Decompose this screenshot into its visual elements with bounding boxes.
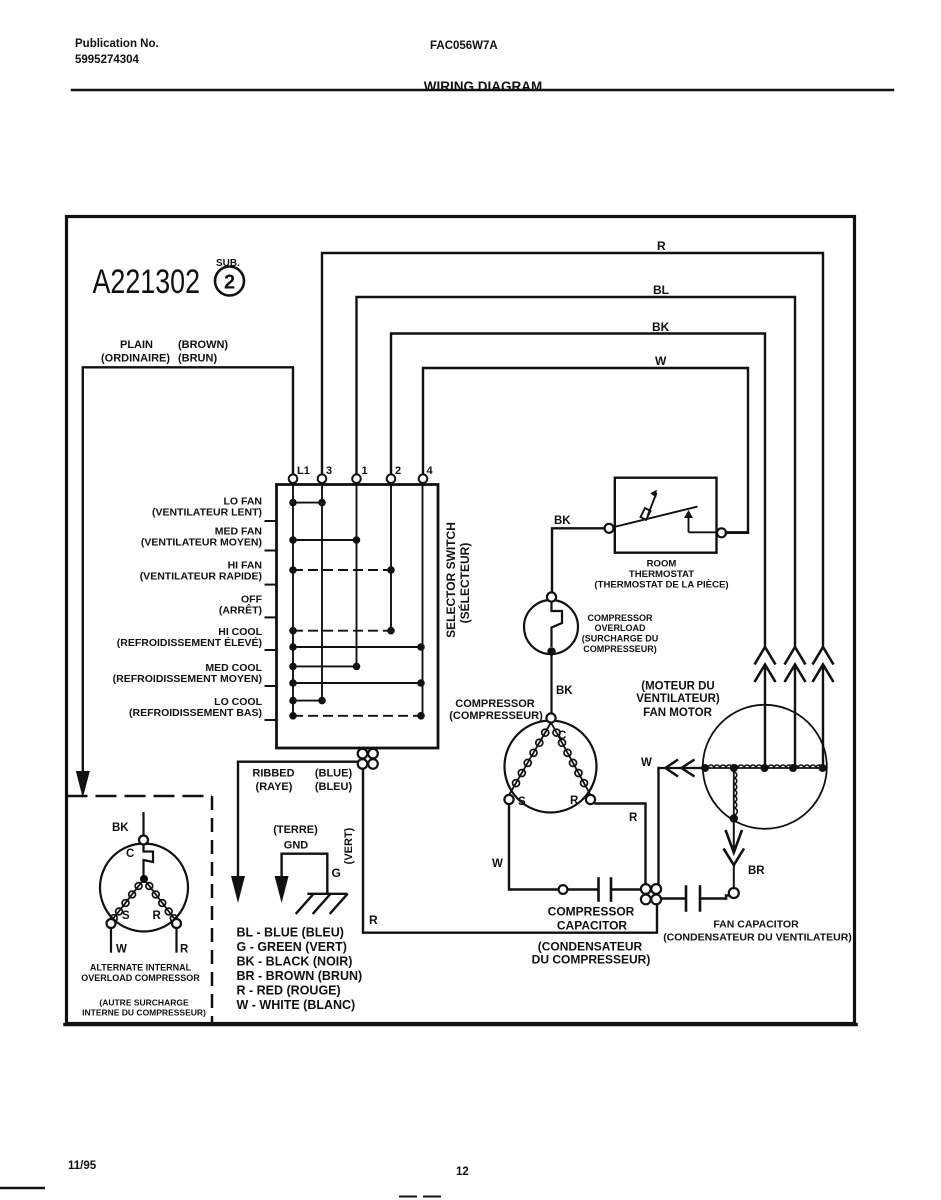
svg-text:R: R — [180, 944, 189, 956]
svg-text:CAPACITOR: CAPACITOR — [557, 919, 628, 933]
svg-text:(ORDINAIRE): (ORDINAIRE) — [101, 353, 170, 365]
svg-text:L1: L1 — [297, 465, 310, 477]
svg-text:DU COMPRESSEUR): DU COMPRESSEUR) — [532, 953, 651, 967]
svg-text:FAC056W7A: FAC056W7A — [430, 40, 498, 52]
svg-text:S: S — [518, 796, 526, 808]
svg-text:BK - BLACK (NOIR): BK - BLACK (NOIR) — [237, 955, 353, 969]
svg-text:R: R — [657, 239, 666, 253]
svg-text:(AUTRE SURCHARGE: (AUTRE SURCHARGE — [99, 998, 189, 1008]
svg-text:R: R — [629, 812, 638, 824]
svg-text:R: R — [153, 910, 162, 922]
svg-text:(VERT): (VERT) — [343, 827, 355, 864]
svg-text:5995274304: 5995274304 — [75, 54, 140, 66]
svg-text:ROOM: ROOM — [647, 559, 677, 570]
svg-text:11/95: 11/95 — [68, 1160, 97, 1172]
svg-text:G: G — [332, 866, 341, 880]
svg-text:BR - BROWN (BRUN): BR - BROWN (BRUN) — [237, 969, 363, 983]
svg-text:ALTERNATE INTERNAL: ALTERNATE INTERNAL — [90, 963, 192, 973]
svg-text:(SÉLECTEUR): (SÉLECTEUR) — [457, 543, 472, 624]
svg-text:(BROWN): (BROWN) — [178, 339, 228, 351]
svg-text:RIBBED: RIBBED — [252, 768, 294, 780]
svg-text:R: R — [369, 913, 378, 927]
svg-text:COMPRESSOR: COMPRESSOR — [587, 613, 653, 623]
svg-text:(ARRÊT): (ARRÊT) — [219, 604, 262, 617]
svg-text:Publication No.: Publication No. — [75, 38, 159, 50]
svg-text:OVERLOAD COMPRESSOR: OVERLOAD COMPRESSOR — [81, 973, 200, 983]
svg-text:FAN MOTOR: FAN MOTOR — [643, 707, 712, 719]
svg-text:BL: BL — [653, 283, 669, 297]
svg-text:COMPRESSEUR): COMPRESSEUR) — [583, 644, 657, 654]
svg-text:SELECTOR SWITCH: SELECTOR SWITCH — [444, 522, 458, 638]
svg-text:4: 4 — [427, 465, 434, 477]
svg-text:(REFROIDISSEMENT BAS): (REFROIDISSEMENT BAS) — [129, 707, 262, 719]
svg-text:COMPRESSOR: COMPRESSOR — [548, 905, 635, 919]
svg-text:2: 2 — [224, 272, 235, 294]
svg-text:(VENTILATEUR MOYEN): (VENTILATEUR MOYEN) — [141, 537, 262, 549]
svg-text:BL - BLUE (BLEU): BL - BLUE (BLEU) — [237, 926, 344, 940]
svg-text:(MOTEUR DU: (MOTEUR DU — [641, 681, 714, 693]
svg-text:VENTILATEUR): VENTILATEUR) — [636, 693, 720, 705]
svg-text:BR: BR — [748, 865, 765, 877]
svg-text:BK: BK — [652, 320, 670, 334]
svg-text:S: S — [122, 910, 130, 922]
svg-text:(SURCHARGE DU: (SURCHARGE DU — [582, 634, 659, 644]
svg-text:FAN CAPACITOR: FAN CAPACITOR — [713, 919, 799, 931]
svg-text:(COMPRESSEUR): (COMPRESSEUR) — [449, 710, 543, 722]
svg-text:GND: GND — [284, 840, 309, 852]
svg-text:(VENTILATEUR RAPIDE): (VENTILATEUR RAPIDE) — [140, 571, 262, 583]
svg-text:1: 1 — [362, 465, 368, 477]
svg-text:(BRUN): (BRUN) — [178, 353, 217, 365]
svg-text:12: 12 — [456, 1166, 469, 1178]
svg-text:(REFROIDISSEMENT MOYEN): (REFROIDISSEMENT MOYEN) — [113, 673, 262, 685]
svg-text:A221302: A221302 — [93, 263, 201, 301]
svg-text:(REFROIDISSEMENT ÉLEVÉ): (REFROIDISSEMENT ÉLEVÉ) — [117, 636, 262, 649]
svg-text:W: W — [116, 944, 127, 956]
svg-text:INTERNE DU COMPRESSEUR): INTERNE DU COMPRESSEUR) — [82, 1008, 206, 1018]
svg-text:COMPRESSOR: COMPRESSOR — [455, 698, 535, 710]
svg-text:(RAYE): (RAYE) — [256, 781, 293, 793]
svg-text:PLAIN: PLAIN — [120, 339, 153, 351]
svg-text:C: C — [126, 848, 134, 860]
svg-text:WIRING DIAGRAM: WIRING DIAGRAM — [424, 79, 543, 94]
svg-text:W: W — [641, 757, 652, 769]
svg-text:(CONDENSATEUR: (CONDENSATEUR — [538, 940, 643, 954]
svg-text:(TERRE): (TERRE) — [273, 824, 318, 836]
svg-text:(THERMOSTAT DE LA PIÈCE): (THERMOSTAT DE LA PIÈCE) — [594, 579, 728, 591]
svg-text:W: W — [492, 858, 503, 870]
svg-text:(BLEU): (BLEU) — [315, 781, 353, 793]
svg-text:W - WHITE (BLANC): W - WHITE (BLANC) — [237, 998, 356, 1012]
svg-text:BK: BK — [554, 515, 571, 527]
svg-text:W: W — [655, 354, 667, 368]
svg-text:2: 2 — [395, 465, 401, 477]
svg-text:G - GREEN (VERT): G - GREEN (VERT) — [237, 940, 347, 954]
svg-text:BK: BK — [556, 685, 573, 697]
svg-text:THERMOSTAT: THERMOSTAT — [629, 569, 694, 580]
svg-text:OVERLOAD: OVERLOAD — [594, 623, 646, 633]
svg-text:R: R — [570, 795, 579, 807]
svg-text:R - RED (ROUGE): R - RED (ROUGE) — [237, 984, 341, 998]
svg-text:3: 3 — [326, 465, 332, 477]
svg-text:(CONDENSATEUR DU VENTILATEUR): (CONDENSATEUR DU VENTILATEUR) — [663, 932, 852, 944]
svg-text:BK: BK — [112, 822, 129, 834]
svg-text:(VENTILATEUR LENT): (VENTILATEUR LENT) — [152, 507, 262, 519]
svg-text:(BLUE): (BLUE) — [315, 768, 353, 780]
